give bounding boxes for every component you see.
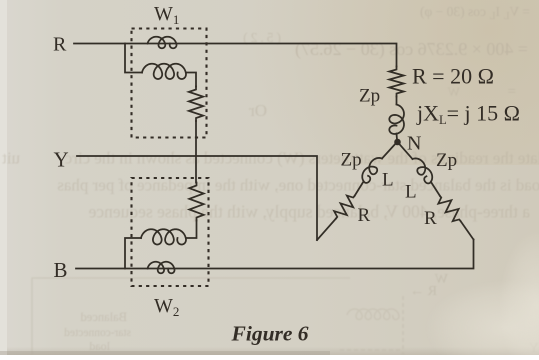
svg-text:Zp: Zp [436, 150, 457, 171]
wire right branch upper [398, 142, 413, 159]
resistor R left [334, 196, 354, 219]
svg-text:Figure 6: Figure 6 [231, 322, 309, 346]
svg-text:Calculate the readings of the: Calculate the readings of the wattmeters… [64, 149, 539, 168]
wattmeter W2 current coil [148, 262, 175, 274]
wattmeter W1 voltage coil [142, 64, 186, 79]
svg-text:R: R [53, 34, 67, 56]
svg-text:load: load [89, 339, 110, 353]
inductor L right [413, 158, 433, 183]
svg-text:jXL= j 15 Ω: jXL= j 15 Ω [416, 101, 520, 128]
node N junction dot [394, 139, 401, 146]
showthrough coil scribble [347, 309, 399, 319]
resistor W1 [189, 87, 203, 122]
wattmeter W2 voltage coil [141, 229, 186, 244]
svg-text:R = 20 Ω: R = 20 Ω [412, 64, 494, 89]
resistor W2 [189, 183, 203, 221]
svg-text:load is the balanced star-conn: load is the balanced star-connected one,… [57, 176, 539, 195]
wire right branch lower [461, 221, 474, 240]
wire left branch upper [382, 142, 397, 159]
svg-text:R: R [424, 208, 437, 229]
svg-text:a three-phase, 400 V, balanced: a three-phase, 400 V, balanced supply, w… [88, 202, 530, 222]
wattmeter W1 current coil [148, 37, 177, 49]
wrinkle highlight bottom right [425, 280, 539, 360]
wire B line [76, 240, 474, 269]
svg-text:Zp: Zp [341, 150, 362, 171]
svg-text:Y: Y [54, 148, 69, 172]
wattmeter W1 dashed box [132, 29, 207, 138]
inductor jXL [389, 105, 404, 135]
wattmeter W2 dashed box [132, 178, 209, 286]
svg-text:Zp: Zp [359, 86, 380, 107]
wire W1 to W2 vertical [195, 121, 197, 183]
wire resistor to coil top branch [396, 97, 398, 105]
showthrough figure: box lines [32, 278, 403, 355]
wire right branch mid [431, 182, 440, 196]
resistor Zp top [389, 67, 403, 97]
resistor R right [438, 196, 460, 221]
wire W2 voltage branch [125, 221, 197, 269]
wire R line [74, 44, 397, 67]
wire Y line [77, 156, 317, 240]
wire left branch mid [355, 182, 364, 197]
svg-text:N: N [407, 133, 421, 155]
svg-text:L: L [405, 182, 417, 203]
svg-text:R: R [358, 205, 371, 226]
inductor L left [362, 158, 382, 183]
wire coil to node N [396, 134, 399, 140]
svg-text:uit: uit [2, 149, 20, 168]
wire left branch lower [317, 219, 336, 241]
svg-text:=: = [508, 84, 516, 100]
svg-text:R →: R → [410, 284, 437, 299]
svg-text:L: L [382, 170, 394, 191]
svg-text:star-connected: star-connected [64, 327, 131, 339]
wire W1 voltage branch [125, 44, 196, 87]
svg-text:B: B [54, 258, 68, 282]
svg-text:= 400 × 9.2376 cos (30 − 26.57: = 400 × 9.2376 cos (30 − 26.57) [295, 39, 528, 60]
svg-text:Balanced: Balanced [80, 310, 127, 324]
bottom page shadow [0, 351, 330, 355]
svg-text:Or: Or [249, 101, 267, 120]
